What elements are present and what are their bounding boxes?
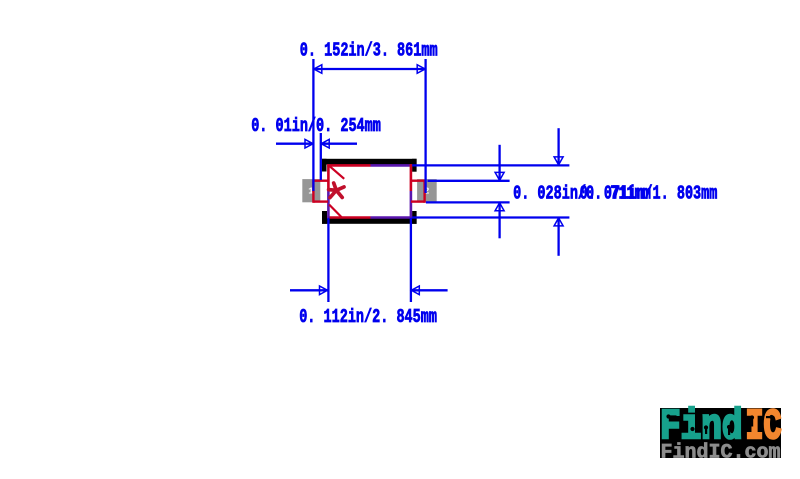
body left edge red [327,164,330,191]
top dimension line y=69 [313,68,425,70]
bottom ext line left x=327.9 [327,218,329,302]
ext line top-right x=425.6 [424,59,426,193]
body top edge red [327,164,370,167]
svg-text:0. 152in/3. 861mm: 0. 152in/3. 861mm [300,40,438,62]
arrow right of top dim [417,65,425,74]
arrow bottom dim right pointing left [411,286,419,295]
pad 1 outline red [313,180,328,203]
pad 1 (gray) [302,179,320,202]
0.028 dim upper line [498,145,500,180]
arrow 0.01 right pointing left [321,139,329,148]
right ext pad-bottom y=202.4 [426,201,510,203]
svg-text:0. 071in/1. 803mm: 0. 071in/1. 803mm [580,183,718,205]
body left edge purple [327,191,330,218]
bottom dim right line [411,289,448,291]
silkscreen top bar [322,159,417,172]
0.01 dim left line [276,143,313,145]
arrow bottom dim left pointing right [320,286,328,295]
arrowheads (hollow) [305,65,563,295]
right ext body-bottom y=217.5 [412,216,569,218]
body right edge red [410,164,413,191]
arrow 0.028 up [495,203,504,211]
bottom dim left line [290,289,328,291]
arrow 0.071 down [554,157,563,165]
arrow 0.01 left pointing right [305,139,313,148]
bottom ext line right x=410.5 [410,218,412,302]
pin1 asterisk marker [329,183,344,198]
blue dimension lines [276,59,569,302]
logo black background [660,408,781,458]
0.01 dim right line [321,143,357,145]
arrow 0.028 down [495,172,504,180]
arrow left of top dim [314,65,322,74]
svg-text:FindIC.com: FindIC.com [661,442,781,465]
body bottom edge red [327,216,370,219]
pin1 chamfer diagonal bottom [329,205,341,218]
svg-text:0. 112in/2. 845mm: 0. 112in/2. 845mm [299,307,437,329]
silkscreen bottom bar [322,211,417,224]
ext line top-left x=313.4 [312,59,314,191]
0.071 dim upper line [557,128,559,164]
pin1 chamfer diagonal top [329,166,344,179]
0.028 dim lower line [498,203,500,238]
pad 2 (gray) [417,179,437,202]
body bottom edge purple [371,216,413,219]
courtyard body rectangle (red/purple) [327,164,412,218]
FindIC logo [660,403,782,465]
pad 2 outline red [411,180,425,203]
svg-text:0. 01in/0. 254mm: 0. 01in/0. 254mm [251,116,381,138]
0.071 dim lower line [557,218,559,256]
logo circuit dots [666,414,773,443]
body top edge purple [371,164,413,167]
body right edge purple [410,191,413,218]
right ext body-top y=165.3 [412,164,569,166]
ext line 0.01 x=320.8 [320,133,322,180]
arrow 0.071 up [554,218,563,226]
right ext pad-top y=180.8 [428,180,510,182]
